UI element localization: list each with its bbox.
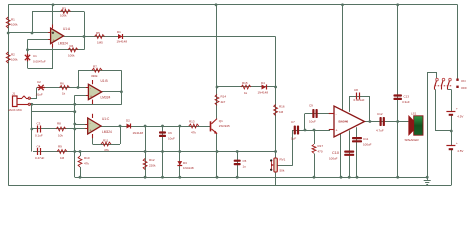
svg-text:D2: D2 [126,118,130,122]
svg-text:R11: R11 [103,139,109,143]
svg-text:100k: 100k [11,58,18,62]
svg-text:C4: C4 [37,145,41,149]
svg-text:1N4148: 1N4148 [183,166,194,170]
svg-text:LM324: LM324 [101,96,111,100]
svg-text:U1:C: U1:C [102,117,110,121]
svg-text:R4: R4 [70,44,74,48]
svg-text:C7: C7 [291,120,295,124]
svg-text:R5: R5 [96,31,100,35]
svg-text:R12: R12 [149,158,155,162]
svg-text:50k: 50k [280,169,285,173]
svg-text:U1:B: U1:B [101,79,108,83]
svg-text:C5: C5 [243,159,247,163]
svg-text:R15: R15 [242,81,248,85]
svg-text:4.7uF: 4.7uF [376,129,384,133]
svg-text:Q1: Q1 [219,119,223,123]
svg-text:C11: C11 [363,137,369,141]
svg-text:C3: C3 [37,122,41,126]
svg-text:100uF: 100uF [329,157,338,161]
svg-text:SPEAKER: SPEAKER [405,138,420,142]
svg-text:U1:A: U1:A [63,27,71,31]
svg-text:J1: J1 [12,92,16,96]
svg-text:D1: D1 [117,30,121,34]
svg-text:1uF: 1uF [291,137,296,141]
svg-text:+: + [336,129,338,133]
svg-text:R3: R3 [62,6,66,10]
svg-text:BA546: BA546 [339,120,349,124]
svg-text:LS1: LS1 [411,112,417,116]
svg-text:470: 470 [318,150,323,154]
svg-text:1M: 1M [279,110,284,114]
svg-text:JACK MIC: JACK MIC [8,108,23,112]
svg-text:C9: C9 [309,104,313,108]
svg-text:4.5V: 4.5V [457,115,463,119]
svg-text:R2: R2 [11,53,15,57]
svg-text:10uF: 10uF [168,137,175,141]
svg-text:330k: 330k [91,74,98,78]
svg-text:3.3uF: 3.3uF [402,100,410,104]
svg-text:220k: 220k [149,164,156,168]
svg-text:1M5: 1M5 [97,41,103,45]
svg-text:LM324: LM324 [102,130,112,134]
svg-text:R8: R8 [57,122,61,126]
svg-text:0.0047uF: 0.0047uF [33,60,46,64]
svg-text:100uF: 100uF [363,143,372,147]
svg-text:C6: C6 [168,131,172,135]
svg-text:0.47uF: 0.47uF [35,156,45,160]
svg-text:10uF: 10uF [309,120,316,124]
svg-text:R7: R7 [93,65,97,69]
svg-text:+: + [90,129,92,133]
svg-text:D4: D4 [261,81,265,85]
svg-text:RV1: RV1 [280,158,286,162]
svg-text:.01uF: .01uF [35,93,43,97]
svg-text:+: + [90,95,92,99]
svg-text:1N4148: 1N4148 [258,91,269,95]
svg-text:+: + [456,141,458,145]
svg-text:1N4148: 1N4148 [133,131,144,135]
svg-text:D3: D3 [183,161,187,165]
svg-text:C1: C1 [33,54,37,58]
svg-text:R14: R14 [221,95,227,99]
svg-text:1k: 1k [62,92,66,96]
svg-text:100k: 100k [11,23,18,27]
svg-text:0.001uF: 0.001uF [354,98,365,102]
svg-text:2SC945: 2SC945 [219,124,230,128]
svg-text:C13: C13 [404,95,410,99]
svg-text:47k: 47k [84,162,89,166]
svg-text:R16: R16 [279,105,285,109]
svg-text:0.1uF: 0.1uF [35,134,43,138]
svg-text:R13: R13 [189,120,195,124]
svg-text:R6: R6 [60,82,64,86]
svg-text:R17: R17 [318,144,324,148]
svg-text:1N4148: 1N4148 [117,40,128,44]
svg-text:100k: 100k [68,54,75,58]
svg-text:R10: R10 [84,156,90,160]
svg-text:47k: 47k [104,148,109,152]
svg-text:1u: 1u [243,165,247,169]
svg-text:ON: ON [461,79,466,83]
svg-text:R1: R1 [11,18,15,22]
svg-text:C10: C10 [332,151,339,155]
svg-text:OFF: OFF [461,86,467,90]
svg-text:47k: 47k [191,131,196,135]
svg-text:10k: 10k [58,134,63,138]
svg-text:C8: C8 [354,88,358,92]
svg-text:+: + [456,107,458,111]
svg-text:4.5V: 4.5V [457,149,463,153]
svg-text:C2: C2 [37,80,41,84]
svg-text:1k: 1k [244,91,248,95]
svg-text:R9: R9 [58,145,62,149]
svg-text:LM324: LM324 [58,41,68,45]
svg-text:1M: 1M [60,156,65,160]
svg-text:+: + [53,39,55,43]
svg-text:4k7: 4k7 [221,100,226,104]
svg-text:100k: 100k [60,14,67,18]
svg-text:C12: C12 [377,112,383,116]
